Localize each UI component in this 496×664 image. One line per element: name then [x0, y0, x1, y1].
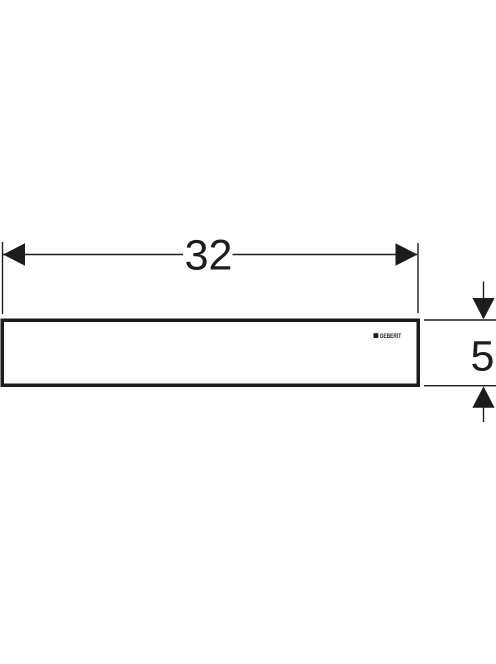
leader line above top arrow — [483, 282, 485, 300]
svg-text:5: 5 — [471, 332, 495, 380]
arrowhead bottom (points up) — [472, 386, 494, 407]
profile rectangle — [2, 320, 418, 385]
extension line right (width dim) — [417, 243, 419, 313]
arrowhead top (points down) — [472, 298, 494, 319]
arrowhead right — [396, 243, 418, 265]
extension line bottom (height dim) — [424, 385, 496, 387]
svg-text:32: 32 — [185, 231, 233, 279]
extension line top (height dim) — [424, 319, 496, 321]
arrowhead left — [3, 243, 25, 265]
dimension line 32 right segment — [233, 254, 418, 256]
svg-text:GEBERIT: GEBERIT — [380, 333, 402, 340]
extension line left (width dim) — [2, 242, 4, 314]
Geberit logo square — [374, 333, 379, 338]
leader line below bottom arrow — [483, 407, 485, 422]
dimension line 32 left segment — [3, 254, 183, 256]
